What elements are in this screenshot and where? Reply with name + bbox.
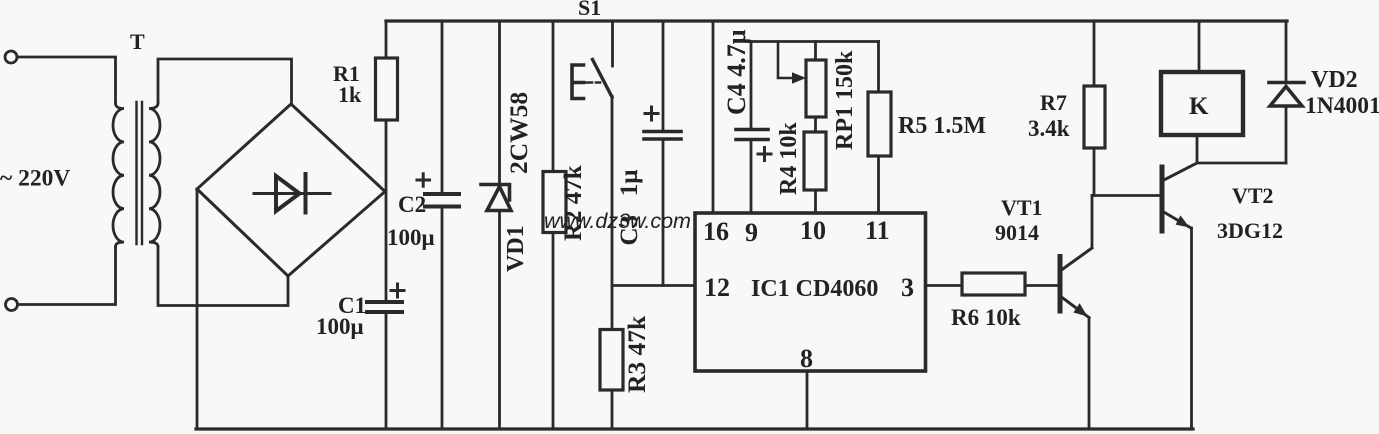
svg-text:10: 10 xyxy=(800,216,826,245)
label plus C4 xyxy=(758,148,771,161)
wire C4 line xyxy=(750,42,753,214)
capacitor C1 xyxy=(367,302,402,312)
resistor R3 xyxy=(600,330,623,391)
wire K bottom node xyxy=(1197,135,1286,163)
wire pin8 line xyxy=(806,371,809,429)
wire C3 line xyxy=(662,21,665,286)
terminal lower AC input xyxy=(6,299,18,311)
svg-text:C2: C2 xyxy=(398,192,426,217)
wire upper input to transformer xyxy=(17,57,116,103)
svg-text:~ 220V: ~ 220V xyxy=(0,166,70,192)
svg-text:9: 9 xyxy=(745,218,758,247)
svg-text:R4 10k: R4 10k xyxy=(776,122,802,195)
svg-text:16: 16 xyxy=(703,217,729,246)
wire VD2 line xyxy=(1285,21,1288,163)
svg-text:C4 4.7μ: C4 4.7μ xyxy=(722,29,751,115)
resistor R6 xyxy=(962,273,1025,295)
switch S1 xyxy=(593,21,613,330)
svg-text:R3 47k: R3 47k xyxy=(622,315,651,393)
wire VT1 emitter xyxy=(1088,318,1091,429)
wire pin16 line xyxy=(712,21,715,213)
svg-text:VT2: VT2 xyxy=(1232,183,1274,208)
svg-text:R6 10k: R6 10k xyxy=(951,305,1021,330)
wire R5 line xyxy=(877,42,880,214)
bridge rectifier xyxy=(197,104,385,276)
svg-text:11: 11 xyxy=(865,216,890,245)
resistor R4 xyxy=(804,132,826,190)
resistor R7 xyxy=(1084,86,1105,148)
transformer T secondary winding xyxy=(149,103,160,247)
svg-text:VD1: VD1 xyxy=(503,225,529,272)
wire VT1 collector to VT2 base xyxy=(1092,194,1160,197)
zener VD1 xyxy=(481,185,511,211)
svg-text:3: 3 xyxy=(901,273,914,302)
relay K xyxy=(1161,72,1243,135)
IC U1 CD4060 xyxy=(695,213,926,371)
wire bridge left vertex to bottom rail xyxy=(196,189,199,429)
switch S1 actuator xyxy=(572,65,600,99)
terminal upper AC input xyxy=(5,51,17,63)
svg-text:12: 12 xyxy=(704,273,730,302)
svg-text:R5 1.5M: R5 1.5M xyxy=(898,113,986,139)
wire pin3 line xyxy=(926,284,963,287)
wire R6 to VT1 base xyxy=(1025,284,1058,287)
label plus C2 xyxy=(417,174,430,187)
resistor R2 xyxy=(543,172,566,233)
svg-text:RP1 150k: RP1 150k xyxy=(832,50,858,150)
wire VT1 collector xyxy=(1091,196,1094,248)
wire pin12 line xyxy=(612,284,695,287)
capacitor C2 xyxy=(425,194,459,207)
svg-text:C3 1μ: C3 1μ xyxy=(616,170,643,246)
wire K top xyxy=(1198,21,1201,72)
wire secondary top to bridge xyxy=(158,59,292,104)
wire R2 line xyxy=(552,21,555,429)
label plus C3 xyxy=(645,107,658,120)
wire VT2 emitter xyxy=(1190,228,1193,429)
svg-text:www.dz3w.com: www.dz3w.com xyxy=(544,209,691,233)
svg-text:IC1 CD4060: IC1 CD4060 xyxy=(751,276,878,302)
svg-text:3DG12: 3DG12 xyxy=(1217,218,1283,243)
wiper arrow RP1 xyxy=(778,42,806,84)
wire bottom rail xyxy=(196,427,1193,430)
capacitor C4 xyxy=(736,130,768,140)
svg-text:VT1: VT1 xyxy=(1001,195,1043,220)
capacitor C3 xyxy=(644,132,681,140)
wire feedback line pin9 xyxy=(751,40,879,43)
svg-text:2CW58: 2CW58 xyxy=(504,92,533,174)
diode VD2 xyxy=(1269,83,1304,107)
resistor R5 xyxy=(868,92,891,156)
svg-text:3.4k: 3.4k xyxy=(1028,116,1070,141)
wire RP1 R4 line xyxy=(814,42,817,214)
svg-text:100μ: 100μ xyxy=(387,225,435,250)
svg-text:9014: 9014 xyxy=(995,220,1039,245)
transformer T primary winding xyxy=(113,103,124,247)
wire R3 to bottom rail xyxy=(611,390,614,429)
svg-text:R7: R7 xyxy=(1040,90,1067,115)
svg-text:VD2: VD2 xyxy=(1311,67,1358,93)
svg-text:K: K xyxy=(1189,93,1209,120)
transistor VT1 xyxy=(1060,248,1092,318)
resistor R1 xyxy=(376,58,398,120)
wire top rail xyxy=(386,19,1287,22)
label plus C1 xyxy=(391,284,404,297)
wire VD1 line xyxy=(498,21,501,429)
svg-text:S1: S1 xyxy=(578,0,601,20)
wire secondary bottom to bridge xyxy=(158,247,288,306)
svg-text:100μ: 100μ xyxy=(316,314,364,339)
svg-text:1k: 1k xyxy=(338,82,362,107)
svg-text:1N4001: 1N4001 xyxy=(1305,93,1379,119)
svg-text:T: T xyxy=(130,29,145,54)
svg-text:8: 8 xyxy=(800,344,813,373)
potentiometer RP1 xyxy=(806,60,826,117)
transformer core xyxy=(137,102,143,244)
wire R7 line xyxy=(1093,21,1096,196)
wire R1 C1 line xyxy=(385,21,388,429)
transistor VT2 xyxy=(1162,164,1196,232)
wire lower input to transformer xyxy=(18,247,116,305)
wire C2 line xyxy=(441,21,444,429)
